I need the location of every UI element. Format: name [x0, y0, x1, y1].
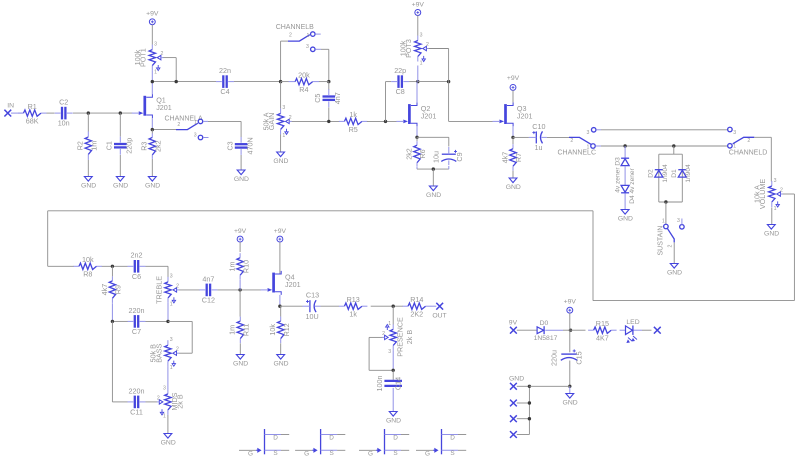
- svg-text:+9V: +9V: [146, 11, 159, 18]
- svg-text:D1: D1: [671, 169, 678, 178]
- svg-text:+9V: +9V: [274, 228, 287, 235]
- svg-text:1u: 1u: [535, 143, 543, 152]
- svg-text:C10: C10: [532, 122, 545, 131]
- svg-text:J201: J201: [517, 111, 533, 120]
- wire: spare gnd to rail: [529, 385, 569, 387]
- svg-text:C4: C4: [220, 87, 229, 96]
- svg-text:G: G: [425, 450, 430, 457]
- wire: C13 to R13: [321, 305, 340, 307]
- node: Q4 source node: [278, 305, 281, 308]
- resistor R4 20k: [281, 81, 289, 83]
- svg-text:1: 1: [774, 206, 777, 212]
- wire: input row: [11, 112, 24, 114]
- svg-text:C2: C2: [59, 98, 68, 107]
- svg-text:2: 2: [157, 395, 160, 401]
- potentiometer GAIN 50k A: [280, 108, 282, 113]
- svg-text:C7: C7: [132, 327, 141, 336]
- svg-text:10n: 10n: [58, 119, 70, 128]
- node: Q2 gate node: [384, 120, 387, 123]
- svg-text:R11: R11: [242, 323, 251, 336]
- svg-text:J201: J201: [156, 103, 172, 112]
- svg-text:1m: 1m: [90, 141, 99, 151]
- svg-text:1: 1: [163, 414, 166, 420]
- svg-text:D: D: [450, 435, 455, 442]
- ground for R7: [509, 178, 517, 183]
- svg-text:1: 1: [662, 218, 665, 224]
- resistor R10 1m: [239, 253, 241, 258]
- potentiometer MIDS 2k B: [167, 389, 169, 394]
- node: clipping diodes tap: [672, 144, 675, 147]
- capacitor C12 4n7: [206, 284, 208, 297]
- wire: Q3 gate feed: [448, 82, 450, 122]
- transistor Q1 J201: [143, 96, 146, 116]
- svg-text:220u: 220u: [549, 350, 558, 366]
- ground for Q2 stage: [429, 186, 437, 191]
- JFET pinout legend 3: [384, 429, 386, 454]
- svg-text:2: 2: [747, 138, 750, 144]
- svg-text:10k: 10k: [268, 324, 277, 336]
- svg-text:C14: C14: [394, 377, 403, 390]
- diode D2 1n904: [655, 169, 663, 171]
- svg-text:C1: C1: [105, 141, 114, 150]
- wire: Q3 drain to +9V: [512, 90, 514, 102]
- svg-text:4k7: 4k7: [500, 152, 509, 164]
- svg-text:TREBLE: TREBLE: [154, 276, 163, 304]
- svg-text:2: 2: [289, 32, 292, 38]
- svg-text:C11: C11: [130, 408, 143, 417]
- ground for R12: [277, 355, 285, 360]
- svg-text:J201: J201: [421, 111, 437, 120]
- power +9V for POT1: [149, 19, 155, 25]
- svg-text:C13: C13: [306, 291, 319, 300]
- wire: POT1 wiper loop: [163, 57, 176, 59]
- svg-text:SUSTAIN: SUSTAIN: [657, 226, 664, 256]
- svg-text:GND: GND: [234, 176, 249, 183]
- resistor R8 10k: [48, 265, 74, 267]
- svg-text:C8: C8: [396, 87, 405, 96]
- svg-text:1N5817: 1N5817: [534, 335, 558, 342]
- wire: C6 to TREBLE top: [146, 265, 169, 267]
- wire: C4 to CHANNELB node: [234, 81, 281, 83]
- svg-text:3: 3: [774, 178, 777, 184]
- pin OUT: [431, 305, 436, 307]
- diode D4 4v zener: [624, 166, 626, 186]
- wire: C10 to CHANNELC: [547, 136, 569, 138]
- svg-text:1: 1: [306, 33, 309, 39]
- svg-text:GND: GND: [667, 270, 682, 277]
- wire: Q2 gate node up to C8: [385, 82, 387, 122]
- ground for zeners: [621, 210, 629, 215]
- resistor R5 1k: [339, 120, 345, 122]
- transistor Q4 J201: [272, 273, 275, 293]
- svg-text:C5: C5: [313, 94, 322, 103]
- wire: GAIN wiper row to R5: [292, 120, 340, 122]
- capacitor C9 10u: [442, 153, 456, 155]
- wire: pin3 row CHANNELC to CHANNELD: [601, 129, 728, 131]
- capacitor C2 10n: [61, 107, 63, 120]
- node: Q1 source / R3 / switch common: [151, 128, 154, 131]
- node: top row dots at POT1: [151, 80, 154, 83]
- svg-text:3: 3: [282, 105, 285, 111]
- ground for R3: [148, 177, 156, 182]
- resistor R13 1k: [339, 305, 345, 307]
- ground for GAIN: [277, 152, 285, 157]
- wire: C12 to Q4 gate node: [217, 289, 261, 291]
- svg-text:4v zener D3: 4v zener D3: [615, 157, 622, 193]
- svg-text:3: 3: [194, 132, 197, 138]
- svg-text:1n904: 1n904: [685, 164, 692, 183]
- JFET pinout legend 1: [264, 429, 266, 454]
- power +9V for Q4: [277, 236, 283, 242]
- capacitor C1 220p: [114, 143, 127, 145]
- svg-text:LED: LED: [626, 319, 639, 326]
- svg-text:J201: J201: [285, 280, 301, 289]
- svg-text:3: 3: [420, 32, 423, 38]
- svg-text:D: D: [329, 435, 334, 442]
- diode D1 1n904: [678, 169, 686, 171]
- node: Q2 source node: [415, 136, 418, 139]
- svg-text:10k: 10k: [82, 255, 94, 264]
- node: Q3 source node: [511, 136, 514, 139]
- wire: TREBLE wiper to C12: [179, 289, 200, 291]
- svg-text:BASS: BASS: [154, 343, 163, 362]
- svg-text:2: 2: [668, 244, 674, 247]
- svg-text:4n7: 4n7: [202, 274, 214, 283]
- svg-text:4k7: 4k7: [100, 284, 109, 296]
- potentiometer BASS 50k B: [167, 340, 169, 345]
- svg-text:+9V: +9V: [234, 228, 247, 235]
- svg-text:1n904: 1n904: [662, 164, 669, 183]
- wire: clipping diode box: [673, 146, 675, 154]
- svg-text:10U: 10U: [306, 312, 319, 321]
- JFET pinout legend 4: [441, 429, 443, 454]
- capacitor C10 1u: [513, 136, 529, 138]
- wire: Q3 source down: [512, 126, 514, 137]
- ground for MIDS: [164, 434, 172, 439]
- svg-text:C15: C15: [574, 351, 583, 364]
- svg-text:1m: 1m: [228, 325, 237, 335]
- svg-text:9V: 9V: [509, 320, 518, 327]
- svg-text:+9V: +9V: [412, 1, 425, 8]
- wire: C8 to POT3 bottom node: [409, 81, 418, 83]
- svg-text:220n: 220n: [129, 386, 145, 395]
- svg-text:R14: R14: [410, 295, 423, 304]
- svg-text:R2: R2: [76, 141, 85, 150]
- wire: CHANNELD common to VOLUME: [754, 136, 771, 138]
- svg-text:OUT: OUT: [432, 312, 446, 319]
- wire: BASS wiper loop: [168, 320, 192, 322]
- resistor R12 10k: [280, 306, 282, 316]
- wire: Q4 source down: [279, 295, 281, 306]
- svg-text:IN: IN: [7, 102, 14, 109]
- svg-text:GND: GND: [273, 361, 288, 368]
- svg-text:68K: 68K: [26, 117, 39, 126]
- node: presence bottom junction: [392, 369, 395, 372]
- potentiometer VOLUME 10k A: [771, 181, 773, 186]
- svg-text:470N: 470N: [245, 137, 254, 154]
- svg-text:2: 2: [780, 187, 783, 193]
- svg-text:2: 2: [289, 115, 292, 121]
- wire: POT3 wiper loop to Q3 gate node: [429, 48, 449, 50]
- node: top row at CHANNELB: [279, 80, 282, 83]
- svg-text:1: 1: [154, 69, 157, 75]
- wire: row to R2/C1: [87, 113, 89, 131]
- resistor R1 68K: [18, 112, 24, 114]
- resistor R7 4k7: [512, 137, 514, 144]
- wire: CHANNELB pin3 to R4 right node: [321, 48, 329, 50]
- node: R8/C6/R9 junction: [111, 265, 114, 268]
- wire: VOLUME wiper to output loop: [783, 193, 795, 195]
- svg-text:R15: R15: [596, 319, 609, 328]
- svg-text:1: 1: [587, 144, 590, 150]
- wire: long signal loop: [793, 194, 795, 301]
- resistor R6 2k2: [416, 137, 418, 141]
- svg-text:22n: 22n: [219, 66, 231, 75]
- svg-text:1: 1: [170, 365, 173, 371]
- power +9V rail: [567, 307, 573, 313]
- svg-text:3: 3: [306, 44, 309, 50]
- svg-text:C9: C9: [455, 152, 464, 161]
- svg-text:GND: GND: [618, 216, 633, 223]
- ground for C1: [116, 177, 124, 182]
- svg-text:1k: 1k: [349, 310, 357, 319]
- potentiometer PRESENCE 2k B: [392, 306, 394, 324]
- potentiometer POT1 100k: [151, 45, 153, 50]
- svg-text:3: 3: [170, 274, 173, 280]
- svg-text:R4: R4: [299, 85, 308, 94]
- power +9V for POT3: [415, 10, 421, 16]
- svg-text:2: 2: [176, 347, 179, 353]
- svg-text:R6: R6: [418, 149, 427, 158]
- svg-text:D0: D0: [540, 320, 549, 327]
- capacitor C13 10u: [280, 305, 303, 307]
- svg-text:S: S: [329, 450, 333, 457]
- svg-text:GND: GND: [563, 400, 578, 407]
- svg-text:1: 1: [194, 120, 197, 126]
- svg-text:2: 2: [426, 42, 429, 48]
- svg-text:R5: R5: [349, 125, 358, 134]
- wire: Q1 drain to top row: [151, 82, 153, 95]
- power +9V for R10: [237, 236, 243, 242]
- svg-text:3: 3: [677, 218, 680, 224]
- svg-text:4n7: 4n7: [333, 92, 342, 104]
- svg-text:R1: R1: [28, 102, 37, 111]
- svg-text:GAIN: GAIN: [267, 113, 276, 131]
- resistor R11 1m: [239, 290, 241, 317]
- svg-text:S: S: [273, 450, 277, 457]
- svg-text:3: 3: [587, 130, 590, 136]
- svg-text:GND: GND: [81, 183, 96, 190]
- potentiometer POT3 100k: [417, 36, 419, 41]
- svg-text:2k B: 2k B: [176, 394, 185, 409]
- wire: CHANNELA pin1 to C3: [208, 120, 241, 122]
- svg-text:C6: C6: [132, 272, 141, 281]
- svg-text:2k B: 2k B: [405, 330, 414, 345]
- svg-text:POT3: POT3: [404, 39, 413, 58]
- svg-text:GND: GND: [233, 361, 248, 368]
- ground for R2: [84, 177, 92, 182]
- transistor Q3 J201: [504, 104, 507, 124]
- svg-text:3: 3: [170, 337, 173, 343]
- node: zener tap: [623, 144, 626, 147]
- svg-text:D: D: [393, 435, 398, 442]
- svg-text:4K7: 4K7: [596, 334, 609, 343]
- wire: PRESENCE wiper loop: [369, 336, 382, 338]
- diode D0 1N5817: [537, 327, 544, 334]
- svg-text:2: 2: [160, 51, 163, 57]
- wire: R6/C9 bottom row: [416, 167, 418, 169]
- svg-text:+9V: +9V: [507, 75, 520, 82]
- node: ground rail node: [568, 385, 571, 388]
- svg-text:20k: 20k: [298, 70, 310, 79]
- wire: top row POT1 to C4: [151, 71, 153, 82]
- ground for R11: [236, 355, 244, 360]
- capacitor C15 220u: [569, 330, 571, 352]
- svg-text:2: 2: [382, 331, 385, 337]
- svg-text:D4 4v zener: D4 4v zener: [629, 167, 636, 203]
- svg-text:R13: R13: [347, 295, 360, 304]
- svg-text:GND: GND: [161, 440, 176, 447]
- wire: R9/C7 node down to C11: [111, 321, 113, 402]
- svg-text:R3: R3: [140, 142, 149, 151]
- svg-text:C12: C12: [202, 296, 215, 305]
- svg-text:D: D: [273, 435, 278, 442]
- svg-text:C3: C3: [226, 141, 235, 150]
- svg-text:2k2: 2k2: [404, 148, 413, 160]
- pin LED cathode X: [654, 327, 661, 334]
- svg-text:PRESENCE: PRESENCE: [395, 317, 404, 357]
- wire: spare gnd pins: [517, 385, 530, 387]
- resistor R3 2k2: [151, 130, 153, 134]
- svg-text:R8: R8: [83, 270, 92, 279]
- wire: MIDS wiper to C11: [146, 401, 157, 403]
- svg-text:1: 1: [388, 321, 391, 327]
- resistor R9 4k7: [111, 266, 113, 276]
- resistor R15 4K7: [571, 329, 586, 331]
- svg-text:GND: GND: [273, 158, 288, 165]
- svg-text:1: 1: [282, 133, 285, 139]
- svg-text:2k2: 2k2: [154, 140, 163, 152]
- ground for SUSTAIN: [670, 264, 678, 269]
- svg-text:R9: R9: [114, 285, 123, 294]
- potentiometer TREBLE 50k: [167, 277, 169, 282]
- svg-text:R12: R12: [282, 323, 291, 336]
- svg-text:220p: 220p: [125, 138, 134, 154]
- wire: Q2 drain up to top row: [416, 82, 418, 103]
- resistor R2 1m: [87, 131, 89, 137]
- svg-text:+9V: +9V: [564, 298, 577, 305]
- node: Q4 gate node: [238, 288, 241, 291]
- node: presence node: [392, 305, 395, 308]
- svg-text:CHANNELC: CHANNELC: [558, 150, 597, 157]
- svg-text:2: 2: [177, 122, 180, 128]
- svg-text:10u: 10u: [432, 151, 441, 163]
- svg-text:GND: GND: [113, 183, 128, 190]
- capacitor C6 2n2: [134, 260, 136, 273]
- svg-text:G: G: [368, 450, 373, 457]
- svg-text:VOLUME: VOLUME: [758, 179, 767, 210]
- ground for C3: [237, 170, 245, 175]
- capacitor C7 220n: [134, 315, 136, 328]
- capacitor C8 22p: [397, 75, 399, 88]
- node: tone row junctions: [111, 320, 114, 323]
- svg-text:CHANNELB: CHANNELB: [276, 24, 314, 31]
- power +9V for Q3: [510, 84, 516, 90]
- svg-text:CHANNELD: CHANNELD: [729, 150, 768, 157]
- svg-text:GND: GND: [426, 192, 441, 199]
- svg-text:3: 3: [388, 349, 391, 355]
- svg-text:1: 1: [733, 144, 736, 150]
- svg-text:GND: GND: [764, 231, 779, 238]
- svg-text:GND: GND: [145, 183, 160, 190]
- svg-text:G: G: [248, 450, 253, 457]
- svg-text:1: 1: [420, 60, 423, 66]
- svg-text:G: G: [304, 450, 309, 457]
- capacitor C14 100n: [392, 370, 394, 380]
- svg-text:3: 3: [733, 130, 736, 136]
- svg-text:3: 3: [163, 386, 166, 392]
- svg-text:100n: 100n: [375, 376, 384, 392]
- node: POT3 bottom node: [416, 80, 419, 83]
- capacitor C3 470N: [235, 143, 248, 145]
- capacitor C5 4n7: [328, 82, 330, 90]
- svg-text:POT1: POT1: [139, 48, 148, 67]
- node: diode box to SUSTAIN: [664, 200, 667, 203]
- svg-text:2K2: 2K2: [410, 310, 423, 319]
- wire: R5 to Q2 gate: [367, 120, 397, 122]
- svg-text:R7: R7: [514, 153, 523, 162]
- svg-text:S: S: [450, 450, 454, 457]
- ground for C15: [569, 386, 571, 393]
- wire: Q1 source down to switch node: [151, 118, 153, 130]
- svg-text:220n: 220n: [129, 306, 145, 315]
- node: spare gnd dots: [528, 385, 531, 388]
- svg-text:D2: D2: [647, 169, 654, 178]
- node: R6/C9 bottom junction: [432, 167, 435, 170]
- svg-text:GND: GND: [506, 184, 521, 191]
- svg-text:1k: 1k: [349, 110, 357, 119]
- wire: Q2 source down: [416, 126, 418, 137]
- svg-text:CHANNELA: CHANNELA: [165, 116, 203, 123]
- svg-text:22p: 22p: [394, 66, 406, 75]
- svg-text:2n2: 2n2: [131, 251, 143, 260]
- wire: source node to C9: [417, 136, 449, 138]
- diode D3 4v zener: [624, 146, 626, 158]
- resistor R14 2K2: [403, 305, 409, 307]
- svg-text:R10: R10: [241, 260, 250, 273]
- svg-text:1: 1: [170, 302, 173, 308]
- JFET pinout legend 2: [320, 429, 322, 454]
- svg-text:2: 2: [176, 283, 179, 289]
- svg-text:GND: GND: [386, 418, 401, 425]
- wire: top row POT3 node to wiper drop: [418, 81, 449, 83]
- wire: CHANNELB common down to top row: [280, 41, 282, 82]
- node: +9V rail node: [569, 329, 572, 332]
- capacitor C4 22n: [222, 75, 224, 88]
- svg-text:2: 2: [570, 138, 573, 144]
- LED: [620, 329, 626, 331]
- transistor Q2 J201: [408, 104, 411, 124]
- svg-text:S: S: [393, 450, 397, 457]
- node: C5 bottom junction: [327, 120, 330, 123]
- svg-text:GND: GND: [509, 375, 524, 382]
- svg-text:1m: 1m: [228, 262, 237, 272]
- svg-text:3: 3: [154, 41, 157, 47]
- node: input row junction dots: [87, 111, 90, 114]
- capacitor C11 220n: [134, 396, 136, 409]
- ground for C14: [389, 412, 397, 417]
- wire: pin1 row CHANNELC to CHANNELD: [601, 145, 728, 147]
